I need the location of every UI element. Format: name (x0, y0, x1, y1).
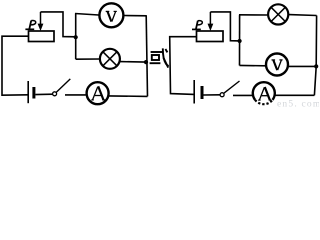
ammeter A2 (bottom arc dashed) (253, 82, 275, 104)
wire lamp branch left (right circuit) (239, 14, 267, 16)
label P (right) (192, 21, 202, 30)
ammeter A2 letter A (258, 87, 271, 100)
long vertical hook of 戈 (163, 48, 169, 66)
slash (163, 58, 168, 68)
node junction dot (lamp branch to right vertical) (144, 60, 148, 64)
wire switch to ammeter (right circuit) (233, 94, 252, 96)
wire voltmeter branch right (124, 15, 146, 17)
wire voltmeter branch right (right circuit) (289, 65, 316, 67)
text annotation 或 (or) between the two circuits (150, 48, 169, 67)
node junction dot (rheostat to parallel branch, left) (74, 35, 78, 39)
voltmeter V2 (266, 54, 288, 76)
label P (left) (25, 20, 35, 29)
voltmeter V2 letter V (272, 60, 283, 70)
ammeter A1 (87, 82, 109, 104)
switch S2 lever (224, 81, 240, 93)
wire ammeter to right vertical (109, 95, 148, 98)
ammeter A1 letter A (91, 86, 105, 100)
wire voltmeter branch left (right circuit) (240, 64, 266, 66)
wire ammeter to right vertical (right circuit) (275, 94, 314, 96)
wire battery to switch (right circuit) (204, 94, 221, 96)
wire voltmeter branch left (75, 14, 99, 16)
lower horizontal (150, 62, 161, 64)
top horizontal (151, 51, 164, 53)
wire parallel-branch left vertical (right circuit) (239, 15, 241, 66)
lamp L2 (268, 4, 288, 24)
switch S1 lever (56, 79, 70, 92)
switch S2 pivot (220, 93, 224, 97)
wire wiper top rail (41, 12, 76, 37)
wire parallel-branch left vertical (75, 13, 77, 59)
wire lamp branch right (right circuit) (289, 14, 317, 17)
voltmeter V1 (99, 3, 123, 27)
battery B2 short plate (201, 86, 204, 99)
rheostat R1 wiper arrow (38, 12, 44, 31)
rheostat R2 body (197, 31, 224, 42)
node junction dot (V branch to right vertical, right circuit) (314, 64, 318, 68)
battery B1 short plate (32, 87, 35, 99)
wire rheostat to left rail (2, 36, 29, 95)
lamp L1 (100, 49, 120, 69)
box 口 (152, 55, 159, 60)
voltmeter V1 letter V (106, 11, 117, 21)
wire lamp branch right (120, 61, 146, 64)
wire right vertical (right circuit) (314, 16, 316, 96)
svg-text:en5. com: en5. com (277, 100, 319, 109)
wire lamp branch left (76, 58, 100, 60)
node junction dot (rheostat to parallel branch, right circuit) (238, 39, 242, 43)
battery B2 long plate (193, 80, 195, 104)
wire battery to switch (35, 93, 52, 95)
wire right vertical (left circuit) (146, 16, 147, 97)
rheostat R2 wiper arrow (208, 12, 214, 31)
dot top right (165, 49, 167, 52)
wire rheostat to left rail (right circuit) (170, 37, 197, 95)
battery B1 long plate (27, 81, 29, 103)
switch S1 pivot (53, 92, 57, 96)
wire switch to ammeter (65, 94, 86, 96)
wire wiper top rail (right) (210, 12, 239, 41)
rheostat R1 body (29, 31, 55, 42)
